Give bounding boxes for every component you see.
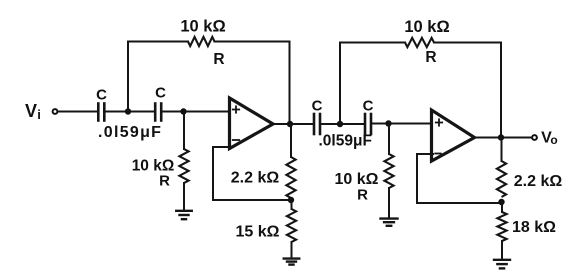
label C of C3 bbox=[312, 98, 323, 115]
svg-text:o: o bbox=[550, 133, 557, 147]
resistor R6 10k feedback stage2 bbox=[405, 38, 434, 47]
wire feedback rail down to U2 output bbox=[500, 43, 502, 138]
wire U2 inverting input feedback loop bbox=[417, 154, 501, 203]
wire U1 output bbox=[273, 123, 314, 125]
wire feedback rail left segment stage2 bbox=[340, 42, 405, 44]
node D junction R3-R4 bbox=[288, 197, 294, 203]
wire C2 to U1 noninverting input bbox=[161, 111, 229, 113]
node G at U2 output bbox=[498, 134, 504, 140]
ground of R1 bbox=[176, 211, 192, 219]
label C of C2 bbox=[155, 85, 166, 102]
wire node B down to R1 bbox=[183, 112, 185, 150]
output terminal Vo bbox=[532, 135, 537, 140]
label C of C4 bbox=[363, 98, 374, 115]
wire C4 to U2 noninverting input bbox=[371, 123, 431, 125]
svg-text:10 kΩ: 10 kΩ bbox=[180, 18, 225, 36]
resistor R3 2.2k bbox=[286, 157, 295, 198]
ground of R8 bbox=[494, 260, 510, 269]
wire feedback rail left segment stage1 bbox=[128, 41, 188, 43]
minus marker U2 bbox=[435, 153, 441, 155]
node H junction R7-R8 bbox=[498, 199, 504, 205]
svg-text:R: R bbox=[159, 173, 170, 190]
label Vo bbox=[541, 130, 558, 148]
label R of R5 bbox=[357, 187, 368, 204]
plus marker U1 bbox=[233, 106, 239, 112]
label 10 kOhm of R5 bbox=[335, 171, 379, 188]
minus marker U1 bbox=[233, 139, 239, 141]
op-amp U2 bbox=[432, 110, 475, 161]
wire Vi to C1 bbox=[59, 111, 99, 113]
svg-text:.0l59μF: .0l59μF bbox=[98, 124, 162, 141]
label 2.2 kOhm of R7 bbox=[514, 173, 563, 190]
svg-text:15 kΩ: 15 kΩ bbox=[236, 224, 280, 241]
label R of R6 bbox=[425, 49, 436, 66]
input terminal Vi bbox=[53, 109, 58, 114]
label 10 kOhm of R1 bbox=[132, 158, 175, 175]
wire feedback rail down to U1 output bbox=[289, 42, 291, 125]
wire feedback rail right segment stage2 bbox=[434, 42, 501, 44]
svg-text:C: C bbox=[312, 98, 323, 115]
svg-text:V: V bbox=[25, 101, 37, 121]
resistor R1 10k shunt bbox=[179, 149, 188, 183]
wire R5 to ground bbox=[388, 188, 390, 218]
wire node A up to feedback rail bbox=[127, 42, 129, 112]
resistor R4 15k bbox=[287, 209, 296, 242]
label 10 kOhm of R2 bbox=[180, 18, 225, 36]
svg-text:C: C bbox=[155, 85, 166, 102]
svg-text:18 kΩ: 18 kΩ bbox=[512, 219, 556, 236]
node A junction C1-C2 feedback tap bbox=[125, 108, 131, 114]
wire node D to R4 bbox=[291, 200, 293, 209]
svg-text:2.2 kΩ: 2.2 kΩ bbox=[514, 173, 563, 190]
ground of R4 bbox=[284, 259, 300, 265]
capacitor C4 bbox=[365, 114, 371, 134]
label 15 kOhm of R4 bbox=[236, 224, 280, 241]
wire feedback rail right segment stage1 bbox=[215, 41, 290, 43]
node B junction C2 with shunt R1 bbox=[180, 108, 186, 114]
svg-text:10 kΩ: 10 kΩ bbox=[404, 18, 449, 36]
wire node F down to R5 bbox=[388, 124, 390, 155]
label R of R1 bbox=[159, 173, 170, 190]
resistor R2 10k feedback stage1 bbox=[188, 37, 215, 46]
svg-text:C: C bbox=[363, 98, 374, 115]
wire U2 output bbox=[475, 137, 532, 139]
op-amp U1 bbox=[230, 98, 274, 149]
node F junction C4 with shunt R5 bbox=[385, 120, 391, 126]
capacitor C1 bbox=[98, 104, 104, 121]
svg-text:R: R bbox=[425, 49, 436, 66]
svg-text:2.2 kΩ: 2.2 kΩ bbox=[231, 170, 280, 187]
svg-text:10 kΩ: 10 kΩ bbox=[335, 171, 379, 188]
wire R1 to ground bbox=[183, 183, 185, 210]
wire node C to C3 bbox=[290, 123, 311, 125]
wire node C down to R3 bbox=[290, 124, 292, 157]
node E junction C3-C4 feedback tap bbox=[337, 121, 343, 127]
resistor R5 10k shunt stage2 bbox=[384, 154, 393, 188]
ground of R5 bbox=[381, 219, 398, 226]
wire node E up to feedback rail stage2 bbox=[339, 43, 341, 125]
value label .0159uF of C1 bbox=[98, 124, 162, 141]
wire R4 to ground bbox=[291, 242, 293, 258]
resistor R7 2.2k stage2 bbox=[497, 161, 506, 197]
wire R8 to ground bbox=[501, 241, 503, 259]
wire C3 to C4 bbox=[320, 123, 365, 125]
svg-text:R: R bbox=[213, 51, 224, 68]
svg-text:R: R bbox=[357, 187, 368, 204]
plus marker U2 bbox=[436, 119, 442, 125]
label C of C1 bbox=[96, 87, 107, 104]
resistor R8 18k bbox=[497, 212, 506, 241]
label 18 kOhm of R8 bbox=[512, 219, 556, 236]
wire node G down to R7 bbox=[501, 138, 503, 162]
label 10 kOhm of R6 bbox=[404, 18, 449, 36]
wire node H to R8 bbox=[501, 202, 503, 212]
wire U1 inverting input feedback loop bbox=[213, 147, 291, 200]
capacitor C2 bbox=[155, 104, 161, 121]
svg-text:C: C bbox=[96, 87, 107, 104]
label R of R2 bbox=[213, 51, 224, 68]
node C at U1 output bbox=[287, 121, 293, 127]
label 2.2 kOhm of R3 bbox=[231, 170, 280, 187]
wire C1 to C2 bbox=[105, 111, 156, 113]
value label .0159uF of C3 bbox=[319, 133, 372, 150]
label Vi bbox=[25, 101, 41, 122]
capacitor C3 bbox=[314, 114, 320, 134]
svg-text:i: i bbox=[37, 107, 41, 122]
